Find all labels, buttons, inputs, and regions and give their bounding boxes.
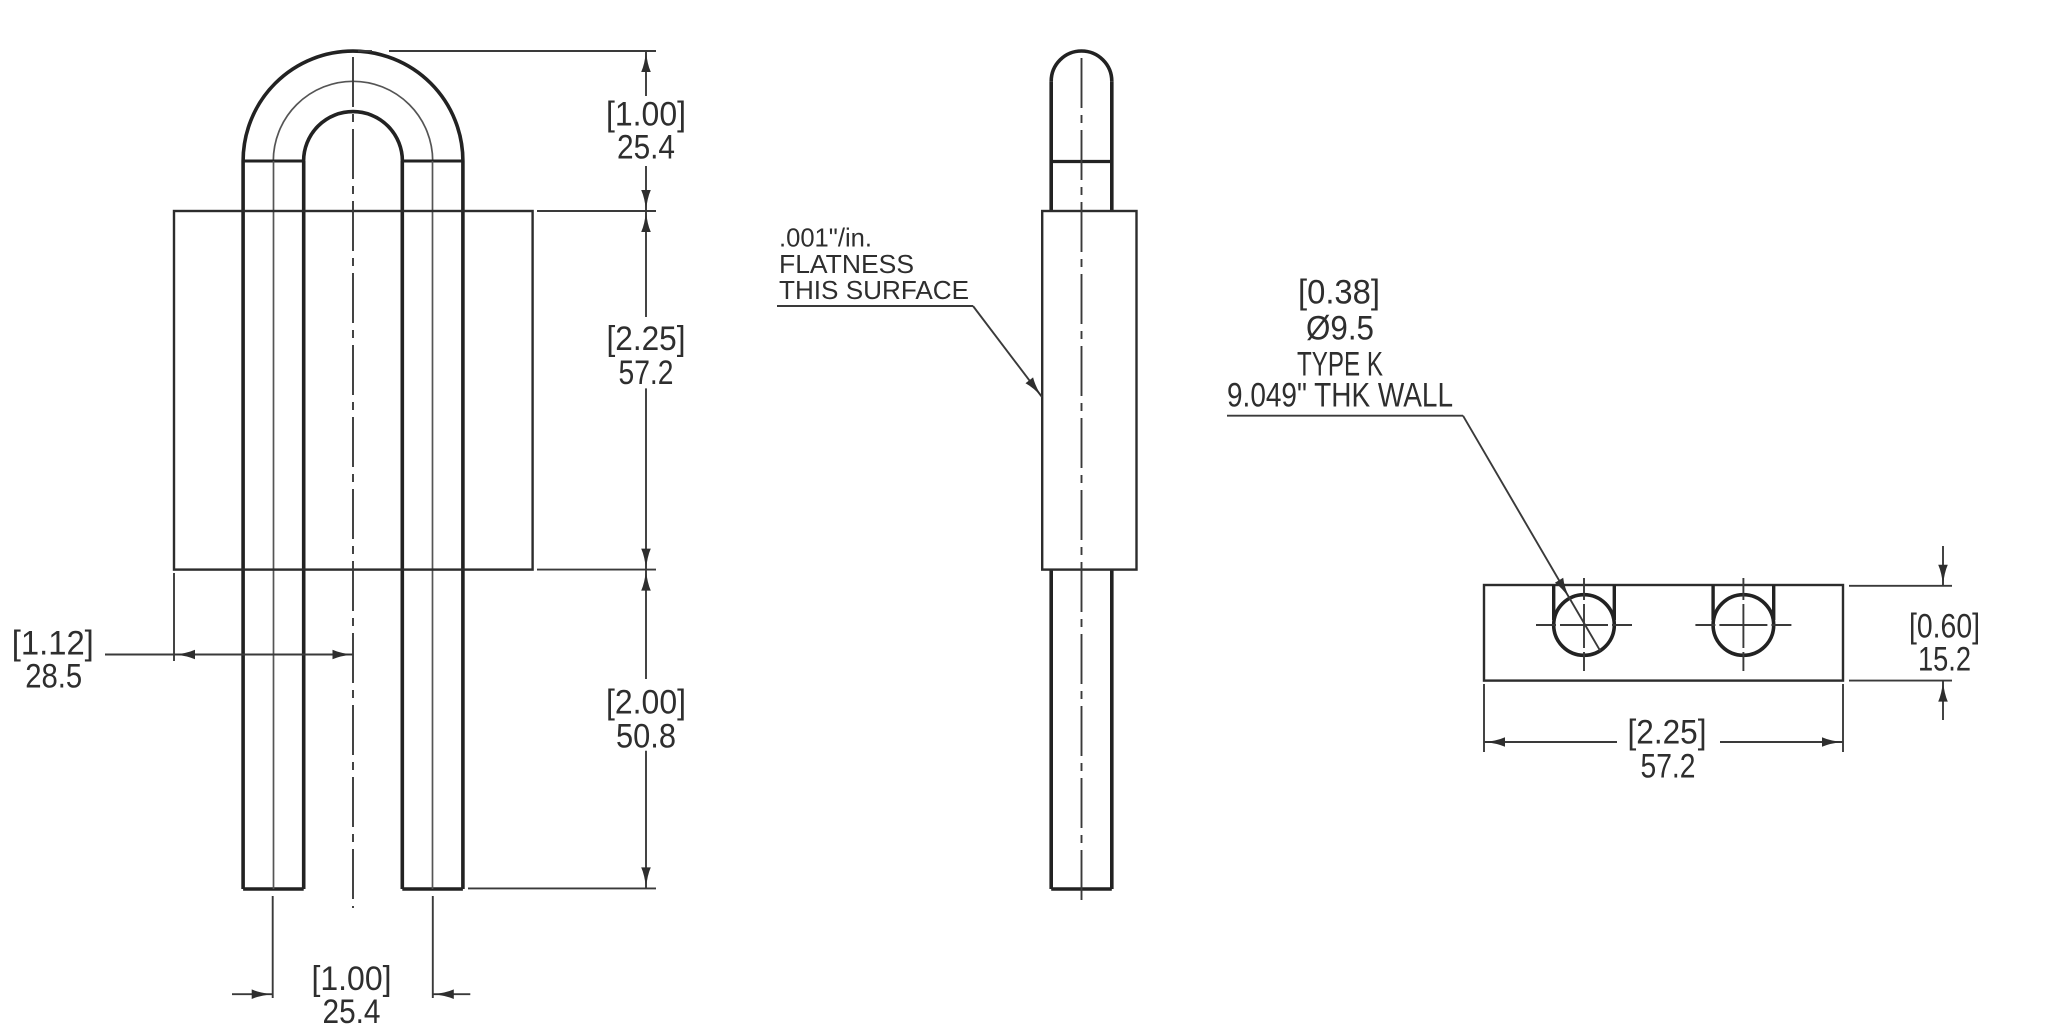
bottom 1.00 dim extension lines <box>272 896 274 998</box>
2.25 top-view arrowheads <box>1484 737 1843 747</box>
right leg bottom end <box>402 887 463 890</box>
extension line plate bottom <box>537 569 656 571</box>
right leg tangency seam <box>402 160 463 163</box>
hole note leader diagonal <box>1463 416 1600 651</box>
2.25 top-view dim line pieces <box>1484 741 1617 743</box>
side view centerline dash-dot <box>1081 58 1083 903</box>
plate top-view outline <box>1484 585 1843 681</box>
svg-text:.001"/in.: .001"/in. <box>779 223 872 253</box>
svg-text:28.5: 28.5 <box>25 658 82 696</box>
svg-text:25.4: 25.4 <box>323 993 381 1025</box>
dim line 2.25 <box>645 211 647 317</box>
left leg bottom end <box>243 887 304 890</box>
extension line from apex <box>358 50 372 52</box>
left hole tangent lines <box>1552 585 1555 620</box>
tube right edge lower <box>1110 570 1114 889</box>
right hole center mark <box>1695 578 1791 671</box>
bottom 1.00 arrowheads <box>252 989 454 999</box>
left leg inner edge <box>302 161 306 889</box>
svg-text:THIS SURFACE: THIS SURFACE <box>779 275 969 305</box>
mounting plate front outline <box>174 211 533 570</box>
1.12 dim line <box>105 654 354 656</box>
right leg centerline (thin) <box>432 161 434 889</box>
svg-text:9.049" THK WALL: 9.049" THK WALL <box>1227 377 1453 415</box>
2.25 top-view extension lines <box>1483 684 1485 752</box>
tube left edge lower <box>1049 570 1053 889</box>
0.60 dim line pieces <box>1942 546 1944 586</box>
svg-text:57.2: 57.2 <box>619 354 674 392</box>
svg-text:25.4: 25.4 <box>617 129 675 167</box>
extension line leg bottom <box>468 887 656 889</box>
dim line 1.00 top <box>645 51 647 96</box>
left leg tangency seam <box>243 160 304 163</box>
extension line plate top <box>537 210 656 212</box>
U-tube inner bend arc <box>304 112 403 161</box>
bottom 1.00 dim line pieces <box>232 993 273 995</box>
svg-text:[2.25]: [2.25] <box>607 320 686 358</box>
svg-text:Ø9.5: Ø9.5 <box>1306 310 1374 348</box>
tube cap arc <box>1051 51 1112 81</box>
right leg inner edge <box>400 161 404 889</box>
svg-text:[2.00]: [2.00] <box>606 684 686 722</box>
flatness leader arrowhead <box>1026 377 1043 397</box>
svg-text:57.2: 57.2 <box>1641 748 1696 786</box>
U-tube outer bend arc <box>243 51 463 161</box>
right hole tangent lines <box>1711 585 1714 620</box>
left tube hole circle <box>1554 595 1615 656</box>
left hole center mark <box>1536 578 1632 671</box>
0.60 arrowheads <box>1938 565 1948 702</box>
svg-text:15.2: 15.2 <box>1918 641 1971 679</box>
tube bottom end <box>1051 887 1112 890</box>
hole note underline <box>1227 415 1463 417</box>
1.12 dim: extension of plate left edge <box>173 573 175 661</box>
tube bend tangency line <box>1051 160 1112 163</box>
right leg outer edge <box>461 161 465 889</box>
svg-text:[2.25]: [2.25] <box>1628 714 1707 752</box>
tube right edge upper <box>1110 81 1114 211</box>
dim line 2.00 <box>645 570 647 679</box>
0.60 dim extension lines <box>1849 585 1952 587</box>
left leg outer edge <box>241 161 245 889</box>
vertical centerline dash-dot <box>352 57 354 908</box>
left leg centerline (thin) <box>273 161 275 889</box>
tube left edge upper <box>1049 81 1053 211</box>
mounting plate side outline <box>1042 211 1136 570</box>
svg-text:50.8: 50.8 <box>616 718 676 756</box>
U-tube bend centerline arc (thin) <box>273 81 432 161</box>
right tube hole circle <box>1713 595 1774 656</box>
flatness leader underline <box>777 305 973 307</box>
flatness leader diagonal <box>973 306 1042 397</box>
1.12 arrowheads <box>174 650 354 660</box>
hole note leader arrowhead <box>1555 578 1570 599</box>
arrowheads right dim stack <box>641 51 651 888</box>
svg-text:[0.38]: [0.38] <box>1298 274 1380 312</box>
